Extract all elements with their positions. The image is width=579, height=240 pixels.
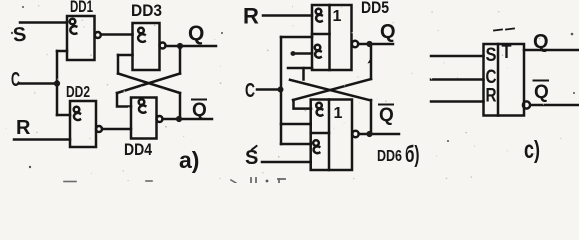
- svg-text:Q: Q: [380, 21, 396, 43]
- accent on S: [252, 146, 257, 150]
- wire Qbar output circuit a: [163, 118, 213, 121]
- arrow tick on feedback wire: [368, 58, 372, 64]
- speckle dots (scan noise): [11, 6, 575, 182]
- svg-text:DD6: DD6: [377, 148, 402, 165]
- wire DD2 out to DD4: [102, 128, 131, 131]
- wire Qbar feedback vertical: [179, 93, 182, 119]
- gate DD2 (NAND): [70, 101, 102, 147]
- svg-text:DD4: DD4: [124, 140, 152, 159]
- svg-text:DD3: DD3: [131, 1, 162, 20]
- wire Q feedback vertical: [179, 46, 182, 74]
- wire bus to DD6 and-1 input: [281, 123, 311, 126]
- scan noise speckles: [6, 5, 562, 181]
- svg-text:Q: Q: [533, 31, 549, 53]
- wire cross diagonal Qbar to DD3: [118, 74, 180, 94]
- wire C riser vertical: [56, 51, 59, 115]
- wire DD3 lower input from feedback: [118, 54, 133, 57]
- svg-text:R: R: [486, 86, 497, 107]
- wire vertical to Qbar junction: [370, 100, 373, 134]
- wire S to DD1: [20, 21, 67, 24]
- junction on C riser: [54, 80, 60, 86]
- cut-off caption fragments at bottom: [64, 178, 285, 183]
- wire R to DD5: [263, 14, 312, 17]
- wire Q feedback vertical circuit b: [370, 44, 373, 79]
- gate DD5 (AND-OR-NOT): [312, 5, 358, 70]
- wire R to DD2: [14, 138, 70, 141]
- wire Q output circuit b: [358, 43, 393, 46]
- svg-text:Q: Q: [188, 22, 204, 45]
- svg-text:1: 1: [333, 8, 342, 25]
- svg-text:DD5: DD5: [361, 0, 389, 17]
- wire lower AND input DD5: [288, 67, 312, 70]
- wire riser to DD1 lower input: [57, 50, 67, 53]
- svg-text:R: R: [243, 4, 259, 29]
- wire DD1 out to DD3: [101, 33, 133, 36]
- wire bus to DD5 and-2 input: [281, 36, 312, 39]
- svg-text:Q: Q: [379, 105, 394, 126]
- wire Q output circuit a: [166, 45, 217, 48]
- junction Qbar circuit a: [176, 116, 182, 122]
- svg-text:R: R: [16, 117, 31, 139]
- svg-text:S: S: [486, 45, 497, 66]
- wire Q output circuit c: [524, 49, 578, 52]
- trigger T block: [484, 42, 531, 116]
- gate DD4 (NAND): [131, 98, 163, 139]
- svg-text:а): а): [179, 147, 199, 173]
- svg-text:Q: Q: [534, 82, 549, 103]
- junction C bus: [278, 87, 284, 93]
- gate DD3 (NAND): [133, 23, 166, 70]
- overline Qbar circuit a: [192, 99, 206, 101]
- svg-text:S: S: [12, 24, 27, 47]
- svg-text:б): б): [405, 141, 420, 167]
- wire input C circuit c: [431, 78, 484, 81]
- svg-text:c): c): [524, 136, 540, 164]
- wire stub input DD5: [292, 52, 312, 55]
- wire input R circuit c: [431, 100, 484, 103]
- svg-text:DD1: DD1: [70, 0, 93, 16]
- svg-text:DD2: DD2: [66, 84, 90, 101]
- gate DD1 (NAND): [67, 16, 101, 60]
- wire feedback riser left: [117, 55, 120, 74]
- junction Q circuit b: [366, 41, 372, 47]
- pen dashes top right: [494, 30, 502, 31]
- wire cross diagonal Q to DD4: [117, 74, 180, 94]
- svg-text:Q: Q: [192, 100, 207, 121]
- wire S to DD6: [262, 161, 311, 164]
- wire riser to DD2 upper input: [57, 114, 70, 117]
- svg-text:C: C: [11, 69, 20, 91]
- wire C bus vertical: [280, 37, 283, 144]
- wire C to bus: [257, 88, 281, 91]
- svg-text:C: C: [245, 80, 255, 102]
- wire DD4 upper input riser: [117, 93, 131, 107]
- wire bus bottom to DD6 and-2 input: [281, 143, 311, 146]
- gate DD6 (AND-OR-NOT): [311, 100, 359, 171]
- wire cross diagonal to Qbar junction: [290, 80, 371, 101]
- overline Qbar circuit c: [534, 80, 549, 82]
- blob on stub input: [291, 51, 296, 56]
- wire feedback step down: [302, 68, 305, 80]
- wire Qbar output circuit c: [530, 104, 578, 107]
- wire input S circuit c: [431, 55, 484, 58]
- junction Q circuit a: [177, 43, 183, 49]
- wire C to riser: [19, 82, 57, 85]
- junction Qbar circuit b: [366, 131, 372, 137]
- svg-text:1: 1: [334, 105, 343, 122]
- overline Qbar circuit b: [379, 104, 393, 106]
- wire step to DD6 input: [294, 100, 312, 109]
- wire cross diagonal from Q: [293, 79, 371, 100]
- wire Qbar output circuit b: [359, 133, 399, 136]
- svg-text:T: T: [502, 42, 512, 63]
